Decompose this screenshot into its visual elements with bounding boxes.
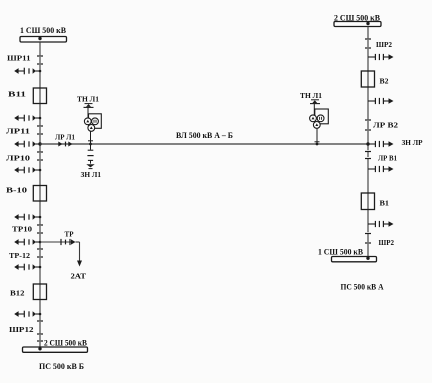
- label 2АТ (autotransformer): [71, 271, 87, 280]
- bus label 1 СШ 500 кВ (right): [318, 247, 364, 256]
- disconnector ЛР В1 earthing-blade glyph: [368, 166, 394, 172]
- svg-text:ШР2: ШР2: [376, 40, 392, 49]
- disconnector ЛР В2 earthing-blade glyph: [368, 98, 394, 104]
- ЗН Л1 break dash: [87, 155, 93, 157]
- tick on ТН Л1 (left) drop: [88, 140, 93, 142]
- svg-text:В2: В2: [380, 76, 389, 85]
- svg-text:ТР: ТР: [65, 229, 74, 238]
- wire: ТН Л1 (left) top stub: [87, 108, 89, 118]
- disconnector ЛР10 break ticks: [37, 152, 43, 160]
- bus label 2 СШ 500 кВ (left): [44, 339, 88, 348]
- junction dot busbar 1СШ / feeder: [38, 37, 41, 40]
- voltage transformer ТН Л1 (right) enclosure: [315, 109, 329, 124]
- svg-text:1 СШ 500 кВ: 1 СШ 500 кВ: [20, 26, 67, 35]
- label В-10: [6, 185, 27, 194]
- busbar 1СШ 500 кВ (left substation Б): [20, 37, 67, 43]
- wire: ТН Л1 (right) top stub: [313, 104, 315, 115]
- wire: ТН Л1 (right) drop to line: [316, 128, 318, 144]
- svg-text:ЛР10: ЛР10: [6, 154, 30, 163]
- circuit breaker В11: [33, 88, 46, 104]
- label ЛР В2: [373, 121, 398, 130]
- svg-text:ТН Л1: ТН Л1: [77, 95, 99, 104]
- disconnector ШР2 earthing-blade glyph (bottom): [368, 221, 394, 227]
- disconnector ТР-12 earthing-blade glyph: [14, 264, 41, 271]
- voltage transformer ТН Л1 (left) windings: [84, 118, 98, 131]
- label ШР12: [9, 325, 34, 334]
- label ЗН Л1: [81, 170, 102, 179]
- disconnector ШР11 break ticks: [37, 56, 43, 64]
- disconnector ЛР11 break ticks: [37, 126, 43, 134]
- svg-text:В12: В12: [10, 288, 25, 297]
- svg-text:ПС 500 кВ А: ПС 500 кВ А: [341, 283, 384, 292]
- label В11: [8, 89, 26, 98]
- voltage transformer ТН Л1 (right) windings: [310, 115, 324, 128]
- svg-text:ЛР В2: ЛР В2: [373, 121, 398, 130]
- node: left line junction (ЛР11 / ВЛ): [38, 142, 41, 145]
- svg-text:ЛР Л1: ЛР Л1: [55, 133, 75, 142]
- label ШР11: [7, 53, 31, 62]
- disconnector ТР-12 break ticks: [37, 249, 43, 257]
- junction dot busbar 1СШ(right) / feeder: [366, 257, 369, 260]
- wire: branch to transformer 2АТ: [40, 242, 80, 262]
- label ЛР В1: [378, 154, 397, 163]
- label В2: [380, 76, 389, 85]
- disconnector ШР11 earthing-blade glyph: [14, 68, 41, 75]
- disconnector blade glyph at left line junction: [14, 141, 41, 148]
- busbar 2СШ 500 кВ (left substation Б): [23, 347, 88, 352]
- tick on ТН Л1 (right) drop: [315, 141, 320, 143]
- svg-text:ШР2: ШР2: [379, 238, 395, 247]
- svg-text:ПС 500 кВ Б: ПС 500 кВ Б: [39, 362, 84, 371]
- disconnector ШР12 break ticks: [37, 321, 43, 341]
- circuit breaker В1: [361, 193, 374, 210]
- label ТН Л1 (left): [77, 95, 99, 104]
- disconnector ШР2 earthing-blade glyph (top): [368, 54, 394, 60]
- disconnector glyph at transformer branch: [14, 239, 41, 246]
- svg-text:В1: В1: [380, 199, 390, 208]
- label ТР: [65, 229, 74, 238]
- busbar 2СШ 500 кВ (right substation А): [334, 22, 381, 27]
- surge/ground mark above ТН Л1 (right): [310, 100, 320, 104]
- label ЛР10: [6, 154, 30, 163]
- earthing switch ЗН ЛР glyph: [368, 141, 394, 147]
- wire: overhead line ВЛ 500 кВ А–Б: [40, 143, 368, 145]
- label ШР2 (bottom): [379, 238, 395, 247]
- disconnector ЛР В1 break ticks: [365, 152, 371, 159]
- disconnector ЛР В2 break ticks: [365, 120, 371, 130]
- svg-text:ШР11: ШР11: [7, 53, 31, 62]
- svg-text:В11: В11: [8, 89, 26, 98]
- disconnector ШР2 break ticks (bottom): [365, 234, 371, 244]
- label ВЛ 500 кВ А – Б: [176, 131, 233, 140]
- svg-text:ЛР В1: ЛР В1: [378, 154, 397, 163]
- disconnector ТР10 earthing-blade glyph: [14, 214, 41, 221]
- circuit breaker В12: [33, 284, 46, 300]
- disconnector ТР break+blade on branch: [61, 239, 76, 245]
- label ТР10: [12, 225, 32, 234]
- label ПС 500 кВ Б: [39, 362, 84, 371]
- disconnector ТР10 break ticks: [37, 225, 43, 233]
- svg-text:ТР-12: ТР-12: [9, 251, 30, 260]
- ЗН Л1 break cap: [88, 149, 94, 151]
- disconnector ШР12 earthing-blade glyph: [14, 311, 41, 318]
- label В1: [380, 199, 390, 208]
- ЗН Л1 blade: [88, 160, 93, 163]
- label ТН Л1 (right): [300, 91, 322, 100]
- label В12: [10, 288, 25, 297]
- bus label 2 СШ 500 кВ (right): [334, 13, 381, 22]
- disconnector ШР2 break ticks (top): [365, 39, 371, 48]
- svg-text:2 СШ 500 кВ: 2 СШ 500 кВ: [44, 339, 88, 348]
- svg-text:ЗН Л1: ЗН Л1: [81, 170, 102, 179]
- arrow to 2АТ: [77, 261, 82, 267]
- junction dot busbar 2СШ / feeder: [38, 347, 41, 350]
- label ПС 500 кВ А: [341, 283, 384, 292]
- wire: left feeder vertical (bus 1СШ to bus 2СШ): [39, 42, 41, 348]
- svg-text:1 СШ 500 кВ: 1 СШ 500 кВ: [318, 247, 364, 256]
- label ТР-12: [9, 251, 30, 260]
- ground symbol ЗН Л1: [86, 164, 94, 168]
- svg-text:ШР12: ШР12: [9, 325, 34, 334]
- label ШР2 (top): [376, 40, 392, 49]
- busbar 1СШ 500 кВ (right substation А): [332, 257, 377, 262]
- wire: ЗН Л1 stub below line: [90, 144, 92, 150]
- label ЛР11: [6, 127, 30, 136]
- svg-text:ВЛ 500 кВ А – Б: ВЛ 500 кВ А – Б: [176, 131, 233, 140]
- svg-text:В-10: В-10: [6, 185, 27, 194]
- wire: ТН Л1 (left) drop to line: [90, 131, 92, 144]
- surge/ground mark above ТН Л1 (left): [84, 104, 94, 108]
- junction dot ТН Л1 (right) / ВЛ: [316, 143, 319, 146]
- junction dot busbar 2СШ(right) / feeder: [366, 22, 369, 25]
- circuit breaker В2: [361, 71, 374, 87]
- label ЗН ЛР: [402, 138, 423, 147]
- voltage transformer ТН Л1 (left) enclosure: [89, 114, 102, 129]
- svg-text:2АТ: 2АТ: [71, 271, 87, 280]
- node: right line junction (ВЛ / ЛР): [366, 142, 369, 145]
- line disconnector ЛР Л1 blades: [58, 142, 72, 147]
- svg-text:ЗН ЛР: ЗН ЛР: [402, 138, 423, 147]
- wire: right feeder vertical (bus 2СШ to bus 1СШ): [367, 27, 369, 257]
- label ЛР Л1: [55, 133, 75, 142]
- disconnector ЛР11 earthing-blade glyph: [14, 115, 41, 122]
- svg-text:ТР10: ТР10: [12, 225, 32, 234]
- svg-text:ЛР11: ЛР11: [6, 127, 30, 136]
- junction dot ТН Л1 (left) / ВЛ: [89, 143, 92, 146]
- svg-text:ТН Л1: ТН Л1: [300, 91, 322, 100]
- bus label 1 СШ 500 кВ (left): [20, 26, 67, 35]
- disconnector ЛР10 earthing-blade glyph: [14, 167, 41, 174]
- circuit breaker В-10: [33, 186, 46, 202]
